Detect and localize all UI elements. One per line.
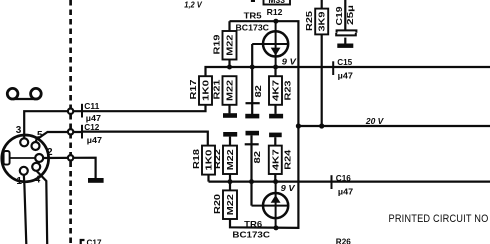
ring contact on C12 line: [68, 129, 73, 134]
label R26: [336, 237, 351, 244]
svg-text:µ47: µ47: [87, 135, 102, 145]
ground pad (R21): [223, 113, 237, 118]
node R18/R20: [228, 179, 233, 184]
resistor R25: [304, 0, 328, 126]
svg-text:M22: M22: [225, 149, 235, 170]
resistor R12 (clipped): [264, 0, 291, 17]
svg-text:R23: R23: [283, 80, 293, 100]
svg-text:4: 4: [35, 175, 41, 186]
capacitor C15: [333, 57, 353, 80]
ground pad (R23): [269, 114, 283, 119]
node collector TR6: [274, 225, 279, 230]
ring contact on pin2 line: [68, 155, 73, 160]
resistor R21: [211, 76, 236, 113]
svg-text:C17: C17: [87, 238, 102, 244]
svg-text:M22: M22: [225, 34, 235, 55]
svg-text:µ47: µ47: [338, 187, 353, 197]
node TR5 emitter: [273, 65, 278, 70]
label 1,2V: [184, 0, 203, 10]
svg-text:BC173C: BC173C: [232, 230, 270, 240]
capacitor C12: [82, 122, 102, 145]
ring contact on C11 line: [68, 109, 73, 114]
ground pad (pin2): [88, 178, 104, 183]
pin 4: [32, 163, 41, 186]
svg-text:BC173C: BC173C: [236, 22, 270, 32]
node collector line / 20V: [296, 123, 301, 128]
svg-text:1,2 V: 1,2 V: [184, 0, 203, 10]
svg-text:9 V: 9 V: [281, 183, 296, 193]
wire pin4 down: [36, 171, 47, 244]
svg-text:C16: C16: [336, 173, 351, 183]
svg-text:9 V: 9 V: [282, 56, 297, 66]
svg-text:25µ: 25µ: [345, 5, 355, 25]
svg-text:R18: R18: [191, 149, 201, 169]
svg-text:M22: M22: [225, 80, 235, 101]
svg-text:C15: C15: [337, 57, 352, 67]
wire pin2 to ground pad: [43, 158, 96, 179]
ground pad (R22): [223, 132, 237, 137]
node TR6 base: [249, 179, 254, 184]
wire 9V rail bottom: [209, 181, 490, 183]
svg-text:R19: R19: [211, 34, 221, 54]
pin 2: [35, 147, 53, 162]
wire 9V rail top: [206, 67, 490, 76]
tape recorder icon: [7, 88, 41, 99]
svg-text:2: 2: [47, 147, 53, 158]
svg-text:82: 82: [253, 85, 263, 98]
svg-text:1: 1: [16, 176, 22, 187]
svg-text:R12: R12: [267, 7, 283, 17]
label 9V (TR5): [282, 56, 297, 66]
pin 5: [32, 130, 44, 150]
wire R20 to TR6 collector: [230, 126, 298, 228]
resistor R22: [212, 137, 237, 182]
wire stub top edge left of R12: [251, 0, 255, 2]
capacitor 82 (top): [246, 85, 263, 114]
svg-text:3: 3: [16, 125, 22, 136]
wire pin5 to C12 line: [36, 132, 83, 142]
svg-text:M33: M33: [268, 0, 285, 5]
svg-text:4K7: 4K7: [270, 149, 280, 170]
transistor TR5: [236, 11, 289, 67]
svg-text:82: 82: [252, 151, 262, 164]
capacitor C16: [332, 173, 354, 197]
svg-text:µ47: µ47: [338, 70, 353, 80]
svg-text:R20: R20: [212, 194, 222, 214]
svg-text:20 V: 20 V: [365, 116, 385, 126]
resistor R19: [211, 21, 236, 67]
ground pad (82 top): [245, 114, 259, 119]
svg-text:R22: R22: [212, 149, 222, 169]
node TR6 emitter: [273, 179, 278, 184]
resistor R17: [188, 76, 212, 105]
svg-text:R21: R21: [211, 79, 221, 99]
wire C12 to R18: [82, 132, 208, 146]
svg-text:PRINTED CIRCUIT NO: PRINTED CIRCUIT NO: [389, 213, 489, 225]
node R25 / 20V: [319, 123, 324, 128]
resistor R24: [269, 137, 293, 181]
node TR5 base: [250, 65, 255, 70]
svg-text:R26: R26: [336, 237, 351, 244]
wire pin1 down: [24, 175, 27, 244]
capacitor C11: [82, 101, 101, 123]
label printed circuit no: [389, 213, 489, 225]
svg-text:R24: R24: [283, 149, 293, 169]
svg-text:TR5: TR5: [244, 11, 262, 21]
pin 3: [16, 125, 28, 146]
pin 1: [16, 167, 27, 187]
svg-text:3K9: 3K9: [317, 11, 327, 31]
ground pad (82 bottom): [246, 131, 260, 136]
svg-text:R25: R25: [304, 11, 314, 31]
resistor R20: [212, 182, 237, 219]
DIN connector housing: [2, 135, 49, 182]
resistor R23: [269, 67, 293, 114]
board edge dashed line: [69, 0, 72, 244]
svg-text:C12: C12: [84, 122, 99, 132]
wire collector rail TR5 top: [230, 21, 299, 126]
capacitor 82 (bottom): [245, 135, 262, 205]
svg-text:R17: R17: [188, 79, 198, 99]
ground pad (R24): [269, 133, 282, 138]
svg-text:TR6: TR6: [244, 219, 262, 229]
label 20V: [365, 116, 385, 126]
wire pin3 to C11 line: [24, 111, 82, 139]
wire C11 to R17: [82, 105, 206, 111]
node collector TR5: [273, 19, 278, 24]
label 9V (TR6): [281, 183, 296, 193]
resistor R18: [191, 146, 215, 182]
svg-text:1K0: 1K0: [201, 80, 211, 101]
ground pad (C19): [337, 44, 353, 48]
svg-text:M22: M22: [225, 194, 235, 215]
transistor TR6: [232, 182, 288, 240]
svg-text:C19: C19: [334, 6, 344, 25]
wire 20V rail: [298, 125, 490, 127]
capacitor C17 (clipped): [81, 238, 102, 244]
svg-text:4K7: 4K7: [271, 80, 281, 101]
capacitor C19: [334, 0, 356, 44]
svg-text:C11: C11: [84, 101, 99, 111]
wire TR5 base: [251, 44, 253, 103]
node R19 bottom: [227, 65, 232, 70]
